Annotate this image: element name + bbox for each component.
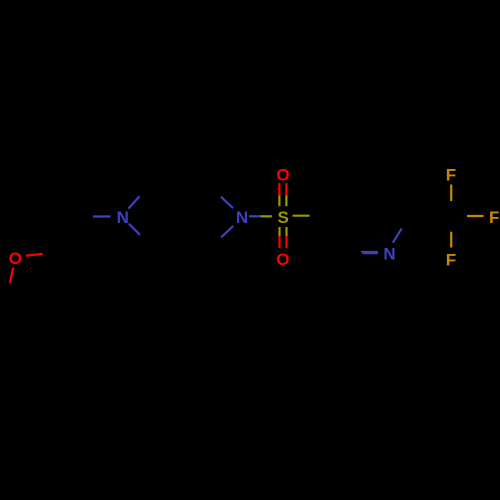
bond C9-N3 half (pyridine C2 to N, blue half, double bond pair)	[361, 251, 378, 253]
bond C3-N1 half (ethyl CH2 to N1, blue half)	[93, 215, 111, 217]
svg-text:S: S	[278, 208, 289, 227]
bond N2-S1 half near N (blue)	[249, 215, 260, 217]
svg-text:F: F	[446, 251, 456, 270]
bond N2-S1 half near S (olive)	[260, 215, 271, 217]
bond C9-N3 half inner line of double bond (blue)	[363, 252, 378, 254]
double bond S1=O3 line 2 olive half	[285, 227, 287, 236]
svg-text:O: O	[276, 165, 289, 184]
bond C7-N2 half (ring CH2 lower, blue half)	[221, 226, 233, 237]
double bond S1=O3 line 1 olive half	[278, 227, 280, 236]
double bond S1=O3 line 2 red half	[285, 236, 287, 248]
double bond S1=O2 line 1 olive half	[278, 195, 280, 206]
bond N1-C5 half (ring CH2 lower, blue half)	[129, 224, 140, 235]
double bond S1=O2 line 1 red half	[278, 183, 280, 195]
svg-text:F: F	[446, 166, 456, 185]
svg-text:O: O	[9, 249, 22, 268]
svg-text:O: O	[276, 250, 289, 269]
bond N1-C4 half (ring CH2 upper, blue half)	[128, 196, 139, 208]
svg-text:N: N	[236, 208, 248, 227]
svg-text:F: F	[489, 208, 499, 227]
bond C11-F2 half (CF3 carbon to right F, orange half)	[467, 215, 484, 217]
svg-text:N: N	[383, 245, 395, 264]
double bond S1=O2 line 2 red half	[285, 183, 287, 195]
bond O1-C2 half (O to CH2, red half)	[26, 254, 43, 256]
bond C11-F3 half (CF3 carbon to bottom F, orange half)	[450, 232, 452, 248]
bond O1-C1 half (O to methyl CH3, red half)	[10, 268, 14, 283]
double bond S1=O3 line 1 red half	[278, 236, 280, 248]
double bond S1=O2 line 2 olive half	[285, 195, 287, 206]
svg-text:N: N	[117, 208, 129, 227]
bond C6-N2 half (ring CH2 upper, blue half)	[221, 197, 233, 208]
bond C11-F1 half (CF3 carbon to top F, orange half)	[450, 185, 452, 202]
bond N3-C10 half (N to pyridine C6, blue half)	[393, 228, 402, 242]
bond S1-C8 half (S to pyridine C3, olive half)	[293, 215, 310, 217]
